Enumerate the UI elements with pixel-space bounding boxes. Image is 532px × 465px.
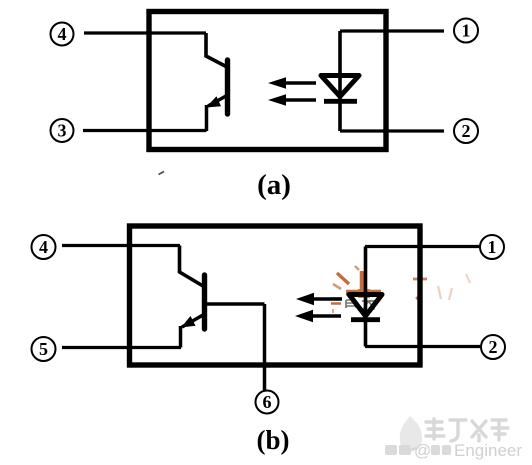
gray watermark bottom right: logo drop — [399, 416, 422, 452]
svg-text:(a): (a) — [257, 169, 291, 201]
LED (a) cathode lead — [338, 101, 342, 131]
phototransistor (b) collector lead — [180, 246, 204, 287]
phototransistor (b) base bar — [202, 275, 207, 329]
pin 4 circle (b) — [32, 235, 56, 259]
pin 4 circle — [51, 23, 74, 46]
pin 1 circle — [454, 19, 478, 43]
pin 5 circle — [32, 337, 56, 361]
phototransistor (b) base lead to pin 6 — [205, 304, 265, 390]
gray watermark bottom line — [385, 441, 522, 460]
wire LED anode to pin 1 — [340, 29, 444, 32]
wire LED anode to pin1 (b) — [365, 245, 479, 248]
wire pin3 to phototransistor emitter — [83, 129, 207, 132]
wire pin5 to emitter (b) — [62, 346, 181, 349]
pin 2 circle — [454, 119, 478, 143]
wire LED cathode to pin2 (b) — [365, 345, 480, 348]
pin 2 circle (b) — [481, 335, 505, 359]
package outline box (b) — [130, 226, 421, 365]
orange watermark fragments over LED (b) — [330, 266, 470, 313]
LED (b) cathode lead — [364, 320, 368, 347]
LED (a) anode lead from pin1 — [338, 31, 342, 99]
svg-text:5: 5 — [39, 339, 48, 359]
svg-text:4: 4 — [39, 237, 48, 257]
LED (b) cathode bar — [351, 317, 380, 322]
pin 6 circle — [256, 391, 279, 414]
svg-text:6: 6 — [263, 392, 272, 412]
svg-text:2: 2 — [462, 121, 471, 141]
faint dark watermark glyph marks inside LED (b) — [346, 300, 375, 310]
svg-text:3: 3 — [58, 121, 67, 141]
package outline box (a) — [149, 12, 386, 150]
LED (b) anode lead — [364, 247, 368, 320]
wire LED cathode to pin 2 — [340, 129, 444, 132]
pin 3 circle — [51, 119, 74, 142]
pin 1 circle (b) — [480, 235, 504, 259]
light arrows (a) — [279, 81, 316, 85]
phototransistor (b) emitter lead with arrow — [182, 315, 203, 327]
svg-text:2: 2 — [489, 337, 498, 357]
stray speck — [159, 172, 165, 175]
svg-text:(b): (b) — [257, 425, 290, 455]
svg-text:@: @ — [414, 441, 431, 460]
phototransistor (a) base bar — [225, 60, 230, 114]
phototransistor (a) collector lead — [206, 33, 227, 67]
svg-text:1: 1 — [488, 237, 497, 257]
wire pin4 to phototransistor collector — [84, 31, 206, 34]
svg-text:1: 1 — [462, 21, 471, 41]
svg-text:4: 4 — [58, 24, 67, 44]
wire pin4 to collector (b) — [62, 244, 180, 247]
phototransistor (a) emitter lead with arrow — [208, 96, 226, 106]
gray watermark text 电子发烧友 (stylized strokes) — [426, 419, 508, 441]
LED (a) cathode bar — [324, 99, 357, 104]
light arrows (b) — [308, 297, 342, 301]
LED (b) triangle — [349, 295, 382, 317]
LED (a) triangle — [321, 76, 359, 97]
svg-text:Engineer: Engineer — [454, 441, 522, 460]
